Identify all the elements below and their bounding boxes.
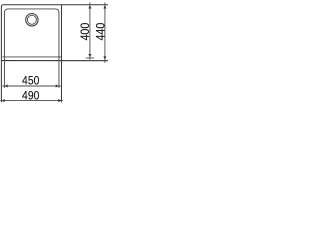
svg-text:440: 440	[95, 23, 108, 41]
right bowl extension line	[58, 57, 60, 88]
arrow 490 right	[58, 99, 61, 102]
sink rim top edge + right extension	[3, 4, 108, 6]
dimension line 400	[89, 2, 91, 59]
sink bowl top/sides with rounded top corners	[4, 9, 59, 57]
arrow 400 top	[88, 5, 91, 8]
sink rim top-left corner arc	[1, 5, 3, 7]
arrow 490 left	[2, 99, 5, 102]
sink rim bottom edge + right extension	[1, 60, 108, 62]
arrow 450 left	[5, 84, 8, 87]
svg-text:450: 450	[22, 75, 39, 88]
drain inner ring	[27, 15, 36, 24]
dimension line 490	[0, 100, 63, 102]
drain outer ring	[26, 14, 38, 26]
arrow 440 top	[103, 5, 106, 8]
svg-text:490: 490	[22, 90, 39, 103]
left bowl extension line	[3, 57, 5, 88]
arrow 450 right	[56, 84, 59, 87]
arrow 440 bottom	[103, 56, 106, 59]
dimension line 450	[2, 85, 60, 87]
sink rim left edge + lower extension	[0, 7, 2, 103]
arrow 400 bottom	[88, 54, 91, 57]
sink bowl bottom edge with overshoot	[3, 56, 62, 58]
svg-text:400: 400	[80, 23, 93, 41]
sink rim right edge + lower extension	[61, 5, 63, 103]
bowl bottom extension segment near 400 line	[86, 57, 94, 59]
dimension line 440	[104, 2, 106, 62]
